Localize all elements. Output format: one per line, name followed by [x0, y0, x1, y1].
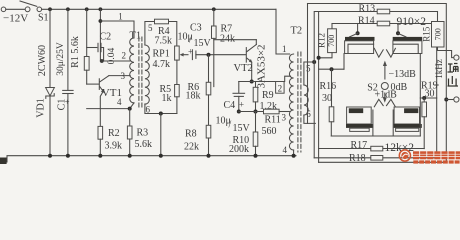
svg-text:VT2: VT2: [234, 63, 253, 74]
wire T2 pin6: [304, 115, 316, 123]
resistor R16 30: [330, 67, 334, 71]
svg-text:6: 6: [146, 105, 151, 115]
wire C4/R9 node: [239, 111, 264, 113]
resistor R6 18k: [208, 55, 210, 83]
wire top rail: [42, 8, 276, 10]
svg-text:200k: 200k: [229, 144, 249, 155]
node (C2 to T1 pin2): [100, 59, 104, 63]
resistor R13 910: [377, 9, 390, 14]
capacitor C2 0.04: [87, 47, 97, 49]
svg-text:4: 4: [283, 145, 288, 155]
terminal -12V: [1, 7, 6, 12]
svg-text:5: 5: [306, 64, 311, 74]
svg-text:4.7k: 4.7k: [153, 59, 171, 70]
svg-text:R14: R14: [358, 15, 375, 26]
svg-text:0.04: 0.04: [107, 47, 117, 64]
T2 primary winding: [289, 54, 293, 150]
svg-text:R12: R12: [316, 33, 326, 48]
resistor R1 5.6k: [86, 9, 88, 56]
resistor R5 1k: [175, 85, 180, 97]
wire line3: [314, 24, 437, 158]
switch S2 contact bottom-left: [347, 107, 372, 124]
svg-text:1kHz: 1kHz: [434, 59, 444, 79]
potentiometer RP1 4.7k: [175, 46, 180, 60]
wire T1 pin1 branch: [99, 9, 101, 61]
svg-text:R11: R11: [265, 115, 281, 126]
R4 box wiring: [145, 22, 155, 46]
svg-text:R1 5.6k: R1 5.6k: [70, 36, 81, 68]
T2 secondary winding: [304, 85, 308, 115]
svg-text:30: 30: [425, 89, 435, 100]
resistor R12 700: [331, 24, 333, 29]
switch S2 contact bottom-right: [394, 107, 419, 124]
svg-text:30μ/25V: 30μ/25V: [56, 42, 66, 76]
wire T1 pin4: [130, 103, 134, 109]
second loop wire (line2): [314, 12, 437, 158]
S2 arrow down: [384, 93, 386, 99]
wire T1 pin2: [100, 60, 130, 62]
wire T1 pin3 (VT1 collector): [109, 75, 130, 77]
svg-text:560: 560: [262, 126, 277, 137]
zener diode VD1 2CW60: [49, 9, 51, 87]
svg-text:3: 3: [121, 71, 126, 81]
wire VT2 collector to R7: [214, 39, 256, 41]
svg-text:7.5k: 7.5k: [155, 36, 173, 47]
svg-text:910×2: 910×2: [397, 16, 427, 28]
wire T2 pin1: [276, 9, 290, 54]
node dots on rail: [48, 7, 52, 11]
S2 wiper contacts: [374, 48, 383, 57]
corner mark bottom-left: [0, 158, 7, 165]
resistor R4 7.5k: [155, 19, 169, 24]
resistor R17 12k: [371, 146, 383, 151]
transistor VT1: [87, 83, 99, 85]
T1 core: [138, 37, 140, 107]
svg-text:C2: C2: [100, 32, 112, 43]
wire: [6, 8, 25, 10]
watermark text: [413, 151, 460, 163]
svg-text:2: 2: [122, 51, 127, 61]
transistor VT2: [245, 48, 247, 63]
svg-text:2: 2: [278, 84, 283, 94]
output terminal upper: [454, 55, 459, 60]
svg-text:5: 5: [148, 23, 153, 33]
svg-text:30: 30: [322, 93, 332, 104]
wire attenuator mid line: [331, 135, 420, 137]
resistor R14 910: [377, 21, 390, 26]
svg-text:15V: 15V: [233, 123, 251, 134]
svg-text:3: 3: [282, 112, 287, 122]
S2 arrow up: [384, 64, 386, 79]
svg-text:24k: 24k: [220, 34, 235, 45]
wire T2 pin5: [304, 62, 314, 85]
svg-text:R2: R2: [108, 128, 120, 139]
svg-text:R13: R13: [359, 3, 376, 14]
capacitor C1 30u/25V: [67, 9, 69, 90]
resistor R18 12k: [371, 156, 383, 161]
svg-text:T2: T2: [291, 26, 303, 37]
svg-text:R8: R8: [185, 128, 197, 139]
output terminal lower: [444, 98, 448, 102]
svg-text:/: /: [229, 120, 232, 131]
svg-text:RP1: RP1: [153, 49, 170, 60]
resistor R19 30: [420, 97, 436, 99]
resistor R7 24k: [213, 9, 215, 26]
svg-text:R3: R3: [137, 127, 149, 138]
svg-text:3.9k: 3.9k: [105, 140, 123, 151]
svg-text:R18: R18: [349, 153, 366, 164]
svg-text:R17: R17: [351, 140, 368, 151]
resistor R15 700: [437, 12, 439, 22]
svg-text:700: 700: [327, 35, 336, 47]
resistor R8 22k: [206, 125, 211, 138]
svg-text:18k: 18k: [186, 90, 201, 101]
hanzi output chars: [448, 64, 459, 87]
resistor R11 560: [264, 109, 280, 114]
wire RP1 to R5: [176, 60, 178, 84]
svg-text:22k: 22k: [184, 141, 199, 152]
switch S2 contact top-right: [397, 24, 399, 34]
svg-text:VD1: VD1: [35, 98, 46, 117]
svg-text:C1: C1: [56, 99, 67, 111]
wire T1 pin6: [145, 104, 177, 114]
capacitor C4 10u/15V: [238, 82, 240, 94]
node VT2 emitter: [250, 80, 254, 84]
svg-text:5.6k: 5.6k: [135, 139, 153, 150]
S2 hinge circle: [381, 83, 388, 90]
svg-text:−12V: −12V: [3, 13, 28, 25]
switch S1: [25, 7, 30, 12]
wire 0dB feed: [318, 12, 320, 163]
bottom ground rail: [7, 156, 296, 162]
svg-text:/: /: [189, 35, 192, 46]
svg-text:S1: S1: [38, 13, 49, 24]
resistor R2 3.9k: [98, 126, 103, 139]
svg-text:C4: C4: [224, 100, 236, 111]
T1 secondary winding: [145, 45, 149, 104]
svg-text:2CW60: 2CW60: [37, 45, 48, 76]
svg-text:1k: 1k: [162, 93, 172, 104]
svg-text:R9: R9: [262, 90, 274, 101]
T2 core: [297, 52, 299, 152]
svg-text:700: 700: [434, 28, 443, 40]
svg-text:R16: R16: [320, 81, 337, 92]
wire R17 line: [319, 148, 425, 150]
resistor R10 200k: [255, 112, 257, 133]
svg-text:R15: R15: [421, 26, 431, 42]
svg-text:15V: 15V: [194, 38, 212, 49]
resistor R9 1.2k: [255, 82, 257, 88]
svg-text:+1dB: +1dB: [375, 90, 398, 101]
svg-text:1: 1: [282, 44, 287, 54]
resistor R3 5.6k: [129, 109, 131, 126]
svg-text:VT1: VT1: [102, 87, 122, 99]
wire T2 pin4: [293, 150, 295, 156]
watermark logo: [399, 150, 410, 161]
svg-text:+: +: [239, 99, 244, 109]
svg-text:1: 1: [118, 12, 123, 22]
T1 primary winding: [130, 38, 134, 103]
svg-text:−13dB: −13dB: [389, 69, 417, 80]
outer loop wire (line1): [308, 4, 447, 163]
T2 pin2 label box: [276, 82, 285, 94]
switch S2 contact top-left: [357, 24, 359, 34]
